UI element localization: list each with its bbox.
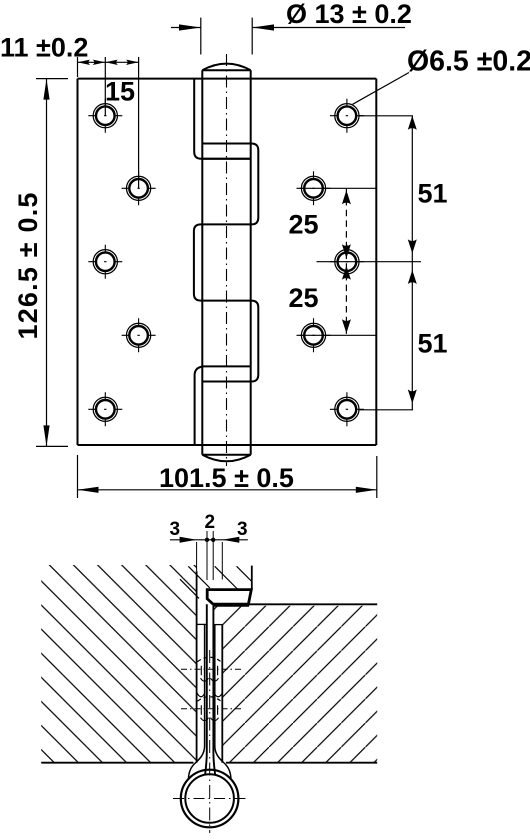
dim 25 dashed line xyxy=(345,188,347,335)
hinge leaf lip (section) xyxy=(207,590,251,605)
frame stop edge xyxy=(251,566,253,590)
mortise slot walls xyxy=(189,624,231,779)
svg-text:2: 2 xyxy=(205,512,216,533)
svg-text:3: 3 xyxy=(170,519,181,540)
svg-text:3: 3 xyxy=(237,519,248,540)
screw hole H1 xyxy=(88,99,122,133)
dim 25 connector lines xyxy=(300,188,377,335)
svg-text:15: 15 xyxy=(105,77,135,107)
dim 126.5 extension lines xyxy=(36,79,68,447)
dim 51 connector lines xyxy=(317,116,422,410)
svg-text:101.5 ± 0.5: 101.5 ± 0.5 xyxy=(159,463,294,493)
screw 2 hidden outline xyxy=(198,697,222,702)
screw hole H10 xyxy=(330,392,364,426)
barrel section outer circle xyxy=(181,770,239,828)
dim 126.5 line xyxy=(46,79,48,447)
svg-text:126.5 ± 0.5: 126.5 ± 0.5 xyxy=(13,191,43,339)
hinge leaves (section verticals) xyxy=(205,604,215,774)
dim 51 line xyxy=(411,116,413,410)
barrel center lines xyxy=(209,650,211,833)
mortise slot top (door side) xyxy=(197,623,207,625)
hinge barrel edges xyxy=(202,70,250,455)
screw hole H5 xyxy=(88,392,122,426)
door block hatch xyxy=(41,565,196,763)
knuckle joint lines and side bumps xyxy=(194,144,258,382)
frame block hatch xyxy=(214,606,378,763)
left leaf inner edge (top cutout) xyxy=(194,79,251,159)
svg-text:Ø6.5 ±0.2: Ø6.5 ±0.2 xyxy=(407,46,530,78)
dim Ø13 extension lines xyxy=(201,18,252,55)
dim 11 / 15 lines xyxy=(78,61,139,63)
screw 1 hidden outline xyxy=(198,657,222,662)
screw hole H2 xyxy=(122,171,156,205)
left leaf plate outline xyxy=(78,79,377,445)
screw hole H6 xyxy=(330,99,364,133)
barrel section inner circle xyxy=(185,774,234,823)
svg-text:11 ±0.2: 11 ±0.2 xyxy=(0,33,88,63)
dim 3-2-3 line xyxy=(170,539,248,541)
knuckle gap line lower xyxy=(202,365,250,367)
frame block outline xyxy=(213,604,377,762)
barrel center line xyxy=(226,54,228,466)
mortise slot bottoms xyxy=(197,693,205,697)
barrel bottom cap xyxy=(202,455,250,462)
frame stop hatch patch xyxy=(180,566,252,598)
dim 3-2-3 extension lines xyxy=(197,531,223,580)
knuckle gap line upper xyxy=(201,158,251,160)
svg-text:51: 51 xyxy=(418,329,448,359)
door block outline xyxy=(41,571,196,763)
dim Ø13 arrows and leader xyxy=(171,27,405,29)
screw hole H7 xyxy=(297,171,331,205)
svg-text:25: 25 xyxy=(289,283,319,313)
svg-text:Ø 13 ± 0.2: Ø 13 ± 0.2 xyxy=(286,0,412,29)
dim 11/15 extension lines xyxy=(78,57,139,188)
screw hole H9 xyxy=(297,318,331,352)
label Ø6.5 leader xyxy=(353,73,409,105)
svg-text:25: 25 xyxy=(289,210,319,240)
screw hole H3 xyxy=(88,245,122,279)
barrel top cap xyxy=(202,64,250,71)
svg-text:51: 51 xyxy=(418,179,448,209)
dim 101.5 extension lines xyxy=(78,455,377,498)
screw hole H8 xyxy=(330,245,364,279)
dim 101.5 line xyxy=(78,489,377,491)
screw hole H4 xyxy=(122,318,156,352)
left leaf inner edge (bottom cutout) xyxy=(195,366,204,445)
mortise slot top (frame side) xyxy=(213,624,222,626)
